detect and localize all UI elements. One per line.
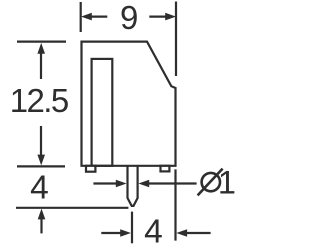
- body outline: [82, 42, 176, 166]
- svg-text:4: 4: [30, 170, 49, 207]
- dimension 12.5: top tick: [17, 40, 66, 42]
- dimension O1: left arrow: [93, 180, 126, 188]
- dimension 4 bottom: left extension line: [131, 212, 133, 244]
- dimension 9: right extension line: [175, 2, 177, 77]
- dimension 12.5: bottom tick: [17, 165, 65, 167]
- dimension 9: left arrow: [81, 13, 107, 21]
- dimension 4 bottom: right extension line: [174, 169, 176, 240]
- dimension 12.5: lower arrow: [37, 126, 45, 165]
- dimension O1: right arrow: [138, 180, 196, 188]
- svg-text:4: 4: [144, 214, 163, 250]
- right foot: [161, 166, 170, 172]
- svg-text:12.5: 12.5: [10, 82, 68, 119]
- wire slot: [92, 59, 113, 166]
- dimension 4 bottom: right arrow: [176, 229, 210, 237]
- dimension 9: left extension line: [80, 2, 82, 32]
- svg-text:9: 9: [120, 0, 138, 36]
- dimension 4 left: below arrow: [38, 209, 46, 234]
- dimension 12.5: upper arrow: [37, 43, 45, 79]
- pin tip level line: [16, 207, 128, 209]
- pin: [128, 166, 138, 206]
- label O1: [198, 169, 223, 196]
- dimension 9: right arrow: [149, 13, 176, 21]
- svg-text:1: 1: [218, 165, 236, 201]
- left foot: [86, 166, 95, 172]
- dimension 4 bottom: left arrow: [101, 229, 131, 237]
